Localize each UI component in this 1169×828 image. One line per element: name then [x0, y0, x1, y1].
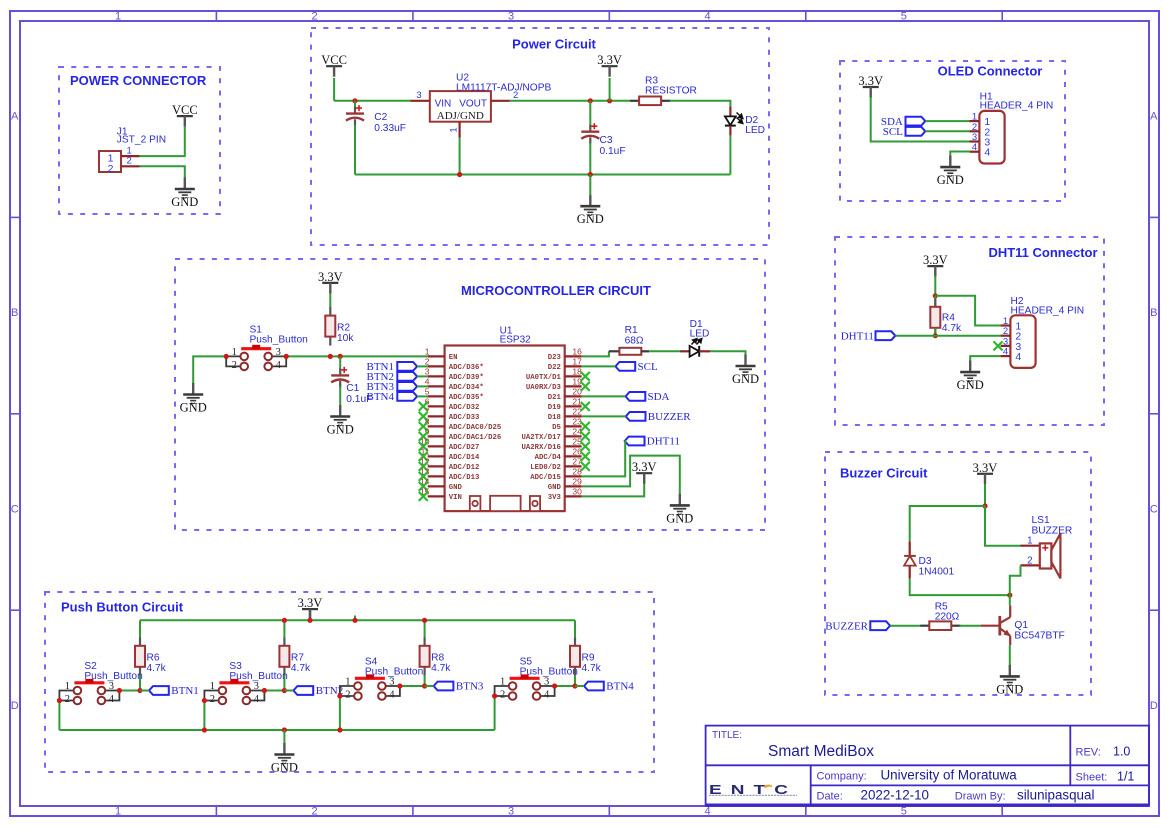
svg-text:VCC: VCC — [321, 53, 347, 67]
svg-text:3: 3 — [254, 681, 259, 692]
svg-text:Push_Button: Push_Button — [229, 671, 287, 682]
svg-text:TITLE:: TITLE: — [712, 730, 742, 741]
svg-text:27: 27 — [572, 457, 582, 467]
svg-text:POWER CONNECTOR: POWER CONNECTOR — [70, 73, 207, 88]
svg-text:GND: GND — [449, 484, 463, 492]
svg-text:Sheet:: Sheet: — [1076, 772, 1108, 784]
svg-text:3.3V: 3.3V — [632, 460, 657, 474]
svg-text:2: 2 — [65, 694, 70, 705]
svg-text:LED: LED — [745, 125, 765, 136]
svg-text:D22: D22 — [548, 364, 561, 372]
svg-text:B: B — [11, 307, 18, 319]
svg-text:ADC/DAC0/D25: ADC/DAC0/D25 — [449, 424, 502, 432]
svg-text:4: 4 — [109, 694, 115, 705]
svg-text:BTN3: BTN3 — [456, 681, 484, 693]
svg-text:3: 3 — [389, 676, 394, 687]
svg-text:18: 18 — [572, 367, 582, 377]
svg-text:1: 1 — [232, 347, 237, 358]
svg-text:1N4001: 1N4001 — [919, 566, 955, 577]
svg-text:REV:: REV: — [1076, 747, 1101, 759]
svg-text:GND: GND — [180, 401, 207, 415]
svg-text:R8: R8 — [431, 652, 444, 663]
svg-text:21: 21 — [572, 397, 582, 407]
svg-text:ADC/D33: ADC/D33 — [449, 414, 480, 422]
svg-text:R2: R2 — [337, 323, 350, 334]
svg-text:ADJ/GND: ADJ/GND — [437, 110, 484, 122]
svg-text:5: 5 — [425, 387, 430, 397]
svg-text:Push_Button: Push_Button — [520, 667, 578, 678]
svg-text:BUZZER: BUZZER — [825, 620, 868, 632]
svg-text:JST_2 PIN: JST_2 PIN — [117, 135, 166, 146]
svg-text:1: 1 — [115, 806, 121, 818]
svg-text:C: C — [1150, 503, 1158, 515]
svg-text:ADC/D4: ADC/D4 — [535, 454, 562, 462]
svg-text:5: 5 — [901, 806, 907, 818]
svg-text:Company:: Company: — [817, 771, 867, 783]
svg-text:4.7k: 4.7k — [147, 663, 167, 674]
svg-text:17: 17 — [572, 357, 582, 367]
svg-text:C2: C2 — [374, 112, 387, 123]
svg-text:DHT11: DHT11 — [647, 436, 680, 448]
svg-text:ADC/D12: ADC/D12 — [449, 464, 480, 472]
svg-text:GND: GND — [666, 511, 693, 525]
svg-text:D23: D23 — [548, 354, 562, 362]
svg-text:ADC/D32: ADC/D32 — [449, 404, 480, 412]
svg-text:220Ω: 220Ω — [935, 611, 960, 622]
svg-text:D5: D5 — [552, 424, 561, 432]
svg-text:2: 2 — [513, 90, 518, 101]
svg-text:3: 3 — [544, 676, 549, 687]
svg-text:68Ω: 68Ω — [625, 336, 644, 347]
svg-text:VIN: VIN — [449, 494, 462, 502]
svg-text:4: 4 — [704, 806, 710, 818]
svg-text:22: 22 — [572, 407, 582, 417]
svg-text:1: 1 — [500, 676, 505, 687]
svg-text:DHT11 Connector: DHT11 Connector — [988, 245, 1097, 260]
svg-text:4: 4 — [389, 689, 395, 700]
svg-text:2: 2 — [311, 806, 317, 818]
svg-text:0.1uF: 0.1uF — [600, 146, 626, 157]
svg-text:4.7k: 4.7k — [942, 323, 962, 334]
svg-text:UA2TX/D17: UA2TX/D17 — [521, 434, 560, 442]
svg-text:ADC/D34*: ADC/D34* — [449, 384, 484, 392]
svg-text:2: 2 — [210, 694, 215, 705]
svg-text:DHT11: DHT11 — [841, 330, 874, 342]
svg-text:4: 4 — [972, 142, 977, 153]
svg-text:26: 26 — [572, 447, 582, 457]
svg-text:D: D — [11, 700, 19, 712]
svg-text:2: 2 — [1027, 555, 1032, 566]
svg-text:ADC/DAC1/D26: ADC/DAC1/D26 — [449, 434, 502, 442]
svg-text:BC547BTF: BC547BTF — [1014, 631, 1064, 642]
svg-text:2: 2 — [232, 360, 237, 371]
svg-text:3.3V: 3.3V — [298, 596, 323, 610]
svg-text:Push_Button: Push_Button — [365, 667, 423, 678]
svg-text:GND: GND — [327, 423, 354, 437]
svg-text:2: 2 — [500, 689, 505, 700]
svg-text:R9: R9 — [582, 652, 595, 663]
svg-text:ADC/D36*: ADC/D36* — [449, 364, 484, 372]
svg-text:3.3V: 3.3V — [858, 74, 883, 88]
svg-text:ESP32: ESP32 — [500, 335, 532, 346]
svg-text:3: 3 — [508, 11, 514, 23]
svg-text:UA2RX/D16: UA2RX/D16 — [521, 444, 560, 452]
svg-text:4.7k: 4.7k — [582, 663, 602, 674]
svg-text:D21: D21 — [548, 394, 562, 402]
svg-text:D: D — [1150, 700, 1158, 712]
svg-text:Push_Button: Push_Button — [250, 334, 308, 345]
svg-text:A: A — [1150, 111, 1158, 123]
svg-text:Buzzer Circuit: Buzzer Circuit — [840, 466, 928, 481]
svg-text:GND: GND — [957, 378, 984, 392]
svg-text:4: 4 — [425, 377, 430, 387]
svg-text:4.7k: 4.7k — [431, 663, 451, 674]
svg-text:3V3: 3V3 — [548, 494, 562, 502]
svg-text:BTN1: BTN1 — [171, 685, 199, 697]
svg-text:29: 29 — [572, 477, 582, 487]
svg-text:Push Button Circuit: Push Button Circuit — [61, 600, 184, 615]
svg-text:VIN: VIN — [435, 98, 452, 109]
svg-text:GND: GND — [577, 212, 604, 226]
svg-text:C3: C3 — [600, 135, 613, 146]
svg-text:HEADER_4 PIN: HEADER_4 PIN — [1011, 305, 1085, 316]
svg-text:R6: R6 — [147, 652, 160, 663]
svg-text:1: 1 — [345, 676, 350, 687]
svg-text:3.3V: 3.3V — [973, 461, 998, 475]
svg-text:GND: GND — [996, 682, 1023, 696]
svg-text:silunipasqual: silunipasqual — [1017, 788, 1094, 803]
svg-text:GND: GND — [171, 195, 198, 209]
svg-text:ADC/D27: ADC/D27 — [449, 444, 480, 452]
svg-text:SCL: SCL — [638, 361, 658, 373]
svg-text:R4: R4 — [942, 313, 955, 324]
svg-text:4: 4 — [544, 689, 550, 700]
svg-text:1: 1 — [210, 681, 215, 692]
svg-text:2: 2 — [425, 357, 430, 367]
svg-text:UA0RX/D3: UA0RX/D3 — [526, 384, 562, 392]
svg-text:LED: LED — [690, 329, 710, 340]
svg-text:Power Circuit: Power Circuit — [512, 37, 596, 52]
svg-text:ADC/D35*: ADC/D35* — [449, 394, 484, 402]
svg-text:LM1117T-ADJ/NOPB: LM1117T-ADJ/NOPB — [456, 82, 552, 93]
svg-text:A: A — [11, 111, 19, 123]
svg-text:GND: GND — [937, 173, 964, 187]
svg-text:3: 3 — [425, 367, 430, 377]
svg-text:5: 5 — [901, 11, 907, 23]
svg-text:EN: EN — [449, 354, 458, 362]
svg-text:1: 1 — [65, 681, 70, 692]
svg-text:RESISTOR: RESISTOR — [645, 86, 697, 97]
svg-text:2: 2 — [311, 11, 317, 23]
svg-text:ADC/D13: ADC/D13 — [449, 474, 480, 482]
svg-text:SCL: SCL — [883, 126, 903, 138]
svg-text:30: 30 — [572, 487, 582, 497]
svg-text:4.7k: 4.7k — [291, 663, 311, 674]
svg-text:4: 4 — [704, 11, 710, 23]
svg-text:HEADER_4 PIN: HEADER_4 PIN — [980, 100, 1054, 111]
svg-text:GND: GND — [271, 761, 298, 775]
svg-text:D3: D3 — [919, 556, 932, 567]
svg-text:Q1: Q1 — [1014, 620, 1028, 631]
svg-text:BUZZER: BUZZER — [1032, 526, 1073, 537]
svg-text:GND: GND — [732, 372, 759, 386]
svg-text:1: 1 — [115, 11, 121, 23]
svg-text:C1: C1 — [346, 383, 359, 394]
svg-text:LED0/D2: LED0/D2 — [530, 464, 561, 472]
svg-text:BTN4: BTN4 — [367, 391, 395, 403]
svg-text:University of Moratuwa: University of Moratuwa — [881, 768, 1018, 783]
svg-text:D19: D19 — [548, 404, 561, 412]
svg-text:D18: D18 — [548, 414, 561, 422]
svg-text:C: C — [11, 503, 19, 515]
svg-text:20: 20 — [572, 387, 582, 397]
svg-text:3: 3 — [508, 806, 514, 818]
svg-text:BTN4: BTN4 — [606, 681, 634, 693]
svg-text:23: 23 — [572, 417, 582, 427]
svg-text:3.3V: 3.3V — [318, 270, 343, 284]
svg-text:1: 1 — [425, 347, 430, 357]
svg-text:28: 28 — [572, 467, 582, 477]
svg-text:BUZZER: BUZZER — [648, 411, 691, 423]
svg-text:1/1: 1/1 — [1117, 770, 1134, 784]
svg-text:2: 2 — [345, 689, 350, 700]
svg-text:ADC/D14: ADC/D14 — [449, 454, 480, 462]
svg-text:VCC: VCC — [172, 103, 198, 117]
svg-text:Push_Button: Push_Button — [84, 671, 142, 682]
svg-text:10k: 10k — [337, 333, 354, 344]
svg-text:4: 4 — [254, 694, 260, 705]
svg-text:3: 3 — [276, 347, 281, 358]
svg-text:4: 4 — [984, 147, 990, 159]
svg-text:Date:: Date: — [817, 791, 843, 803]
svg-text:2: 2 — [127, 156, 132, 167]
svg-text:B: B — [1150, 307, 1157, 319]
svg-text:ADC/D39*: ADC/D39* — [449, 374, 484, 382]
svg-text:2022-12-10: 2022-12-10 — [861, 788, 930, 803]
svg-text:4: 4 — [1015, 351, 1021, 363]
svg-text:24: 24 — [572, 427, 582, 437]
svg-text:OLED Connector: OLED Connector — [938, 64, 1043, 79]
svg-text:1.0: 1.0 — [1113, 745, 1130, 759]
svg-text:19: 19 — [572, 377, 582, 387]
svg-text:UA0TX/D1: UA0TX/D1 — [526, 374, 562, 382]
svg-text:3: 3 — [416, 90, 421, 101]
svg-text:3.3V: 3.3V — [923, 253, 948, 267]
svg-text:1: 1 — [1027, 536, 1032, 547]
svg-text:LS1: LS1 — [1032, 515, 1050, 526]
svg-text:VOUT: VOUT — [459, 98, 487, 109]
svg-text:2: 2 — [108, 163, 114, 175]
svg-text:4: 4 — [1003, 347, 1008, 358]
svg-text:Drawn By:: Drawn By: — [955, 791, 1006, 803]
svg-text:R7: R7 — [291, 652, 304, 663]
svg-text:3.3V: 3.3V — [597, 53, 622, 67]
svg-text:SDA: SDA — [648, 391, 670, 403]
svg-text:0.33uF: 0.33uF — [374, 123, 406, 134]
svg-text:4: 4 — [276, 360, 282, 371]
svg-text:ADC/D15: ADC/D15 — [530, 474, 561, 482]
svg-text:1: 1 — [449, 127, 460, 132]
svg-text:MICROCONTROLLER CIRCUIT: MICROCONTROLLER CIRCUIT — [461, 283, 651, 298]
svg-text:3: 3 — [109, 681, 114, 692]
svg-text:Smart MediBox: Smart MediBox — [768, 743, 874, 760]
svg-text:25: 25 — [572, 437, 582, 447]
svg-text:16: 16 — [572, 347, 582, 357]
svg-text:GND: GND — [548, 484, 562, 492]
svg-text:R1: R1 — [625, 325, 638, 336]
